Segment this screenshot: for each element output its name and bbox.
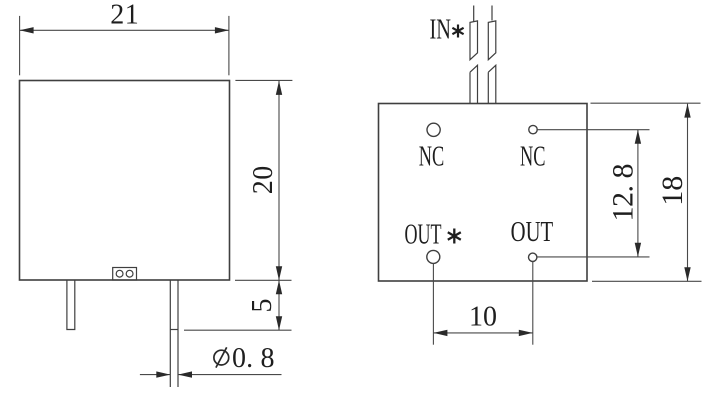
- asterisk of IN*: [452, 25, 463, 38]
- pin OUT: [529, 253, 537, 261]
- pin OUT*: [427, 250, 440, 263]
- pin NC (left): [427, 123, 440, 136]
- reference line from NC (right): [537, 129, 649, 131]
- svg-text:20: 20: [248, 166, 279, 195]
- extension line from OUT* pin: [432, 263, 434, 344]
- dimension 18 (body height bottom view): [591, 103, 702, 281]
- dimension Ø0.8 (lead diameter): [140, 374, 282, 376]
- svg-text:21: 21: [110, 0, 139, 31]
- svg-text:10: 10: [469, 302, 497, 333]
- svg-text:NC: NC: [419, 141, 445, 172]
- center lead: [170, 281, 178, 388]
- dimension 21 (top width): [20, 16, 229, 75]
- extension line from OUT pin: [532, 262, 534, 345]
- input pin 1 (with break): [470, 6, 478, 104]
- dimension 20 (body height): [235, 80, 292, 280]
- svg-text:OUT: OUT: [511, 217, 554, 248]
- component body (left view): [20, 81, 230, 281]
- left lead: [67, 281, 75, 330]
- svg-text:NC: NC: [520, 141, 546, 172]
- asterisk of OUT*: [448, 229, 461, 244]
- svg-text:OUT: OUT: [405, 220, 442, 251]
- svg-text:18: 18: [656, 176, 689, 206]
- svg-text:IN: IN: [430, 15, 452, 46]
- pin NC (right): [529, 125, 537, 133]
- reference line from OUT: [537, 256, 650, 258]
- svg-text:5: 5: [247, 299, 278, 313]
- dimension 10 (pin spacing): [433, 332, 532, 334]
- svg-text:0. 8: 0. 8: [232, 343, 275, 374]
- dimension 5 (lead standoff): [184, 280, 292, 330]
- component body (bottom view): [379, 104, 588, 282]
- connector box on bottom edge: [113, 268, 137, 281]
- dimension 12.8 (pin row spacing): [637, 130, 639, 257]
- svg-text:12. 8: 12. 8: [607, 164, 640, 222]
- input pin 2 (with break): [488, 6, 496, 104]
